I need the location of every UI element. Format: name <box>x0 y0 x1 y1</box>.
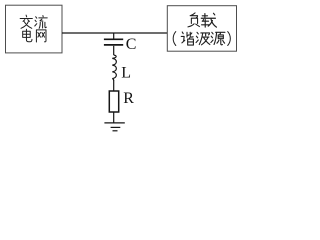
wire: bus from AC grid to load <box>62 32 167 34</box>
label 网 (AC grid text, line 2 char 2) <box>36 30 46 42</box>
wire: inductor to resistor <box>113 80 115 91</box>
label 负 (load text, line 1 char 1) <box>188 13 199 27</box>
label （ (load text, line 2 char 1) <box>173 32 176 46</box>
resistor R body <box>109 91 118 112</box>
label 流 (AC grid text, line 1 char 2) <box>35 16 47 29</box>
wire: resistor to ground <box>113 112 115 123</box>
ground bar 3 <box>113 130 118 132</box>
box: AC grid source block <box>6 5 63 53</box>
label 交 (AC grid text, line 1 char 1) <box>20 15 32 28</box>
svg-text:R: R <box>123 90 134 107</box>
label ） (load text, line 2 char 5) <box>228 32 231 46</box>
box: load (harmonic source) block <box>167 6 236 52</box>
capacitor C top plate <box>104 38 123 40</box>
svg-text:C: C <box>126 36 137 53</box>
label 电 (AC grid text, line 2 char 1) <box>23 29 32 41</box>
inductor L coil <box>112 55 116 81</box>
capacitor C bottom plate <box>104 44 123 46</box>
label 谐 (load text, line 2 char 2) <box>181 32 193 45</box>
svg-text:L: L <box>121 65 131 82</box>
ground bar 1 <box>104 122 124 124</box>
label 源 (load text, line 2 char 4) <box>211 32 225 44</box>
label 波 (load text, line 2 char 3) <box>196 32 210 44</box>
ground bar 2 <box>111 126 121 128</box>
wire: capacitor to inductor <box>113 46 115 55</box>
label 载 (load text, line 1 char 2) <box>201 13 216 27</box>
node: branch junction <box>113 33 115 39</box>
